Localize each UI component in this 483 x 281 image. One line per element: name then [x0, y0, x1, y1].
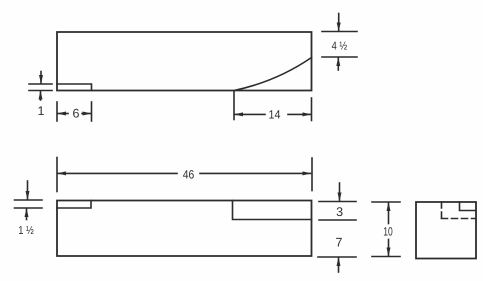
dims 3 and 7: extension lines — [318, 202, 356, 258]
dim 6: extension lines — [57, 102, 92, 121]
top view: taper curve — [234, 58, 312, 91]
dim 46: dimension line with outward arrows — [57, 171, 312, 175]
svg-text:14: 14 — [269, 107, 281, 121]
plan view: left rabbet step (1 1/2 wide) — [57, 201, 91, 209]
dim 10: extension lines — [372, 202, 400, 257]
end view: square outline — [416, 202, 476, 259]
dim 6: dimension line with outward arrows — [57, 112, 92, 116]
dim 1: bottom arrow — [39, 91, 43, 101]
plan view: board outline — [57, 201, 312, 257]
dim 4 1/2: bottom arrow — [336, 57, 340, 70]
dim 1 1/2: bottom arrow — [25, 208, 29, 220]
dim 4 1/2: top arrow — [337, 14, 341, 32]
dim 46: extension lines — [57, 158, 312, 192]
dim 1: extension lines — [29, 84, 52, 91]
dim 10: dimension line with outward arrows — [387, 202, 391, 257]
dim 7: bottom arrow — [337, 257, 341, 272]
svg-text:1 ½: 1 ½ — [18, 225, 34, 237]
dim 14: extension lines — [234, 92, 312, 121]
dim 1: top arrow — [39, 72, 43, 85]
dim 14: dimension line with outward arrows — [234, 112, 312, 116]
svg-text:10: 10 — [383, 225, 393, 239]
svg-text:6: 6 — [73, 107, 80, 121]
top view: rabbet step (1 deep x 6 wide) — [57, 84, 92, 91]
top view: board outline — [57, 32, 312, 91]
svg-text:3: 3 — [336, 205, 343, 219]
dim 1 1/2: top arrow — [26, 181, 30, 200]
plan view: right notch step (3 x 14) — [233, 201, 312, 220]
svg-text:1: 1 — [38, 104, 45, 118]
dim 4 1/2: extension lines — [322, 32, 357, 58]
svg-text:7: 7 — [336, 235, 343, 249]
dim 3: top arrow — [338, 183, 342, 202]
end view: visible notch corner (solid) — [460, 202, 477, 211]
end view: hidden rabbet lines (dashed) — [442, 202, 477, 219]
svg-text:46: 46 — [183, 168, 195, 182]
dim 1 1/2: extension lines — [15, 200, 43, 208]
svg-text:4 ½: 4 ½ — [332, 41, 348, 53]
